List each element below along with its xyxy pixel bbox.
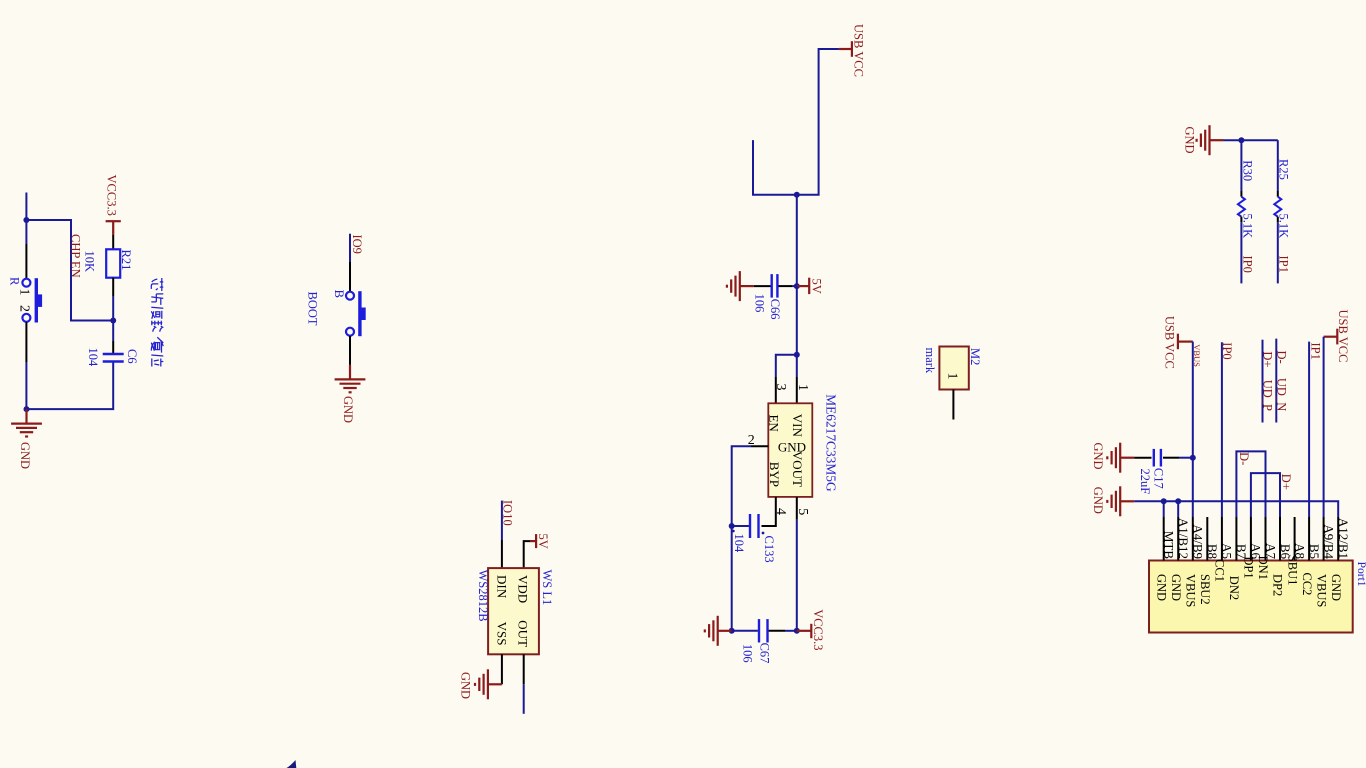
pin 3 lead [775, 377, 777, 403]
pin R30-bot lead [1240, 217, 1242, 223]
svg-text:CHP EN: CHP EN [69, 234, 83, 278]
wire gnd bus row [1134, 501, 1338, 517]
ground symbol boot [349, 365, 351, 380]
svg-text:VOUT: VOUT [790, 451, 805, 487]
mouse cursor [287, 760, 297, 768]
wire pin1 route [796, 355, 798, 377]
wire c17 to vbus [1179, 457, 1193, 459]
svg-text:GND: GND [18, 442, 32, 469]
wire gndrow to c67 [732, 630, 758, 632]
svg-text:22uF: 22uF [1138, 469, 1152, 495]
node junction c17-vbus [1190, 455, 1196, 461]
svg-text:GND: GND [1091, 443, 1105, 470]
wire EN net [732, 446, 751, 526]
svg-text:VBUS: VBUS [1314, 574, 1328, 607]
pin M2-1 lead [952, 390, 954, 420]
wire C133 to en [732, 525, 749, 527]
svg-text:10K: 10K [83, 251, 97, 273]
wire button lower [25, 362, 27, 409]
svg-text:USB VCC: USB VCC [852, 24, 866, 77]
svg-text:DP2: DP2 [1271, 574, 1285, 596]
wire IP0 [1221, 342, 1223, 517]
svg-text:IP0: IP0 [1220, 342, 1234, 359]
capacitor C133 [757, 514, 759, 538]
svg-text:C17: C17 [1151, 468, 1165, 489]
svg-text:D+: D+ [1279, 474, 1293, 490]
svg-text:WS2812B: WS2812B [476, 570, 490, 622]
resistor R21 [106, 249, 120, 277]
svg-text:B8: B8 [1205, 544, 1220, 559]
pushbutton R [22, 279, 30, 287]
pin B5 lead [1308, 517, 1310, 561]
wire gnd row [27, 362, 114, 410]
capacitor C6 [103, 353, 124, 355]
svg-text:VIN: VIN [790, 414, 805, 438]
svg-text:104: 104 [732, 534, 746, 554]
ground symbol c67 [718, 630, 732, 632]
ground symbol reset [25, 409, 27, 424]
wire r25 top [1277, 140, 1279, 191]
wire D+ crossover [1251, 473, 1280, 517]
wire C66 to trunk [792, 285, 797, 287]
pin R21-top lead [112, 235, 114, 249]
svg-text:SBU1: SBU1 [1285, 555, 1299, 586]
pin R-2 lead [25, 322, 27, 362]
svg-text:IP0: IP0 [1240, 256, 1254, 273]
wire VBUS [1192, 342, 1194, 517]
regulator U ME6217C33M5G body [768, 403, 812, 497]
ground symbol pullups [1210, 139, 1224, 141]
svg-text:GND: GND [1183, 127, 1197, 154]
pin 1 lead [796, 377, 798, 403]
wire node to C6 [112, 321, 114, 342]
pin B-2 lead [349, 336, 351, 365]
wire r25 bottom [1277, 222, 1279, 283]
wire gnd to r25 [1224, 139, 1278, 141]
svg-text:A4/B9: A4/B9 [1191, 524, 1206, 559]
node junction gnd-row [24, 406, 30, 412]
svg-text:GND: GND [341, 396, 355, 423]
wire mtb stub [1163, 501, 1165, 517]
svg-text:D+: D+ [1261, 351, 1275, 367]
wire D- crossover [1236, 451, 1265, 517]
svg-text:IP1: IP1 [1309, 343, 1323, 360]
svg-text:C133: C133 [762, 536, 776, 563]
svg-text:OUT: OUT [516, 620, 531, 647]
power flag 5V ws [535, 534, 537, 548]
pin R-1 lead [25, 244, 27, 278]
svg-text:GND: GND [1091, 487, 1105, 514]
ground symbol c66 [740, 285, 754, 287]
pin R21-bottom lead [112, 278, 114, 296]
svg-text:DIN: DIN [495, 575, 510, 599]
pin A8 lead [1294, 517, 1296, 561]
pin C17-left lead [1134, 457, 1151, 459]
svg-text:C6: C6 [125, 349, 139, 364]
power flag VCC3.3 [106, 220, 121, 222]
pin B6 lead [1279, 517, 1281, 561]
wire stub D+ [1262, 340, 1264, 423]
svg-text:1: 1 [17, 289, 32, 296]
svg-text:D-: D- [1237, 452, 1251, 465]
wire trunk vertical [796, 195, 798, 286]
pin DIN lead [501, 540, 503, 568]
pin R30-top lead [1240, 191, 1242, 197]
pin VSS lead [501, 654, 503, 684]
node junction 5V row [794, 283, 800, 289]
svg-text:R: R [8, 277, 22, 286]
svg-text:IO9: IO9 [350, 235, 364, 254]
svg-text:2: 2 [17, 305, 32, 312]
svg-text:DN1: DN1 [1256, 556, 1270, 580]
pin 2 lead [751, 445, 768, 447]
pin C66-right lead [779, 285, 793, 287]
svg-text:GND: GND [1169, 574, 1183, 601]
ground symbol port [1120, 500, 1134, 502]
svg-text:M2: M2 [968, 348, 982, 365]
power flag 5V [797, 285, 809, 287]
pin A12/B1 lead [1337, 517, 1339, 561]
svg-text:CC1: CC1 [1213, 559, 1227, 582]
capacitor C17 [1153, 449, 1155, 467]
svg-text:DP1: DP1 [1242, 556, 1256, 578]
svg-text:106: 106 [740, 644, 754, 663]
pin C66-left lead [754, 285, 771, 287]
svg-text:R21: R21 [119, 250, 133, 271]
svg-text:VBUS: VBUS [1192, 344, 1202, 367]
wire vout [796, 520, 798, 631]
capacitor C66 [771, 274, 773, 298]
dot 104 [732, 530, 735, 533]
wire c67 to vout [785, 630, 797, 632]
svg-text:VSS: VSS [495, 622, 510, 646]
svg-text:A9/B4: A9/B4 [1321, 524, 1336, 559]
svg-text:5V: 5V [810, 279, 824, 294]
svg-text:5.1K: 5.1K [1276, 214, 1290, 239]
svg-text:R25: R25 [1276, 159, 1290, 180]
pin B8 lead [1206, 517, 1208, 561]
mark M2 body [939, 347, 968, 390]
svg-text:A5: A5 [1220, 543, 1235, 559]
node junction a1b12 [1175, 498, 1181, 504]
node junction en-c133 [729, 523, 735, 529]
svg-text:D-: D- [1275, 351, 1289, 364]
node junction trunk-top [794, 192, 800, 198]
svg-text:UD_P: UD_P [1261, 380, 1275, 411]
wire IO10 [501, 501, 503, 540]
svg-text:SBU2: SBU2 [1198, 574, 1212, 605]
ground symbol ws [488, 683, 502, 685]
resistor R30 [1238, 197, 1245, 217]
node junction EN [110, 318, 116, 324]
node junction r30 [1238, 137, 1244, 143]
pin OUT lead [523, 654, 525, 684]
svg-text:VCC3.3: VCC3.3 [811, 609, 825, 650]
wire usbvcc trunk [753, 49, 839, 195]
wire IP1 [1308, 342, 1310, 517]
power flag USB VCC right [1336, 329, 1338, 345]
node junction gnd row [729, 628, 735, 634]
pin B7 lead [1235, 517, 1237, 561]
pin C67-right lead [769, 630, 785, 632]
svg-text:5V: 5V [536, 534, 550, 549]
svg-text:1: 1 [945, 373, 960, 380]
pin B-1 lead [349, 262, 351, 292]
svg-text:C66: C66 [768, 299, 782, 320]
svg-text:106: 106 [753, 294, 767, 313]
power flag VCC3.3 out [797, 630, 812, 632]
wire pin3 route [776, 355, 797, 377]
wire trunk to vin [796, 286, 798, 355]
wire stub top-left [25, 193, 27, 221]
wire button upper [25, 220, 27, 244]
svg-text:DN2: DN2 [1227, 576, 1241, 600]
pin A5 lead [1221, 517, 1223, 561]
svg-text:VBUS: VBUS [1184, 574, 1198, 607]
wire stub D- [1275, 339, 1277, 423]
resistor R25 [1274, 197, 1281, 217]
svg-text:C67: C67 [757, 643, 771, 664]
svg-text:BYP: BYP [767, 462, 782, 487]
power flag USB VCC top [851, 41, 853, 57]
wire a1b12 stub [1177, 501, 1179, 517]
annotation chip-enable [151, 278, 163, 291]
svg-text:CC2: CC2 [1300, 573, 1314, 596]
capacitor C67 [758, 619, 760, 642]
svg-text:GND: GND [459, 672, 473, 699]
svg-text:MTB: MTB [1162, 531, 1177, 560]
wire A9B4 vbus [1323, 337, 1325, 517]
node junction mtb [1161, 498, 1167, 504]
pin A6 lead [1250, 517, 1252, 561]
node junction button-top [23, 217, 29, 223]
pin R25-top lead [1277, 191, 1279, 197]
svg-text:USB VCC: USB VCC [1163, 316, 1177, 369]
svg-text:BOOT: BOOT [306, 292, 320, 326]
svg-text:B5: B5 [1307, 544, 1322, 559]
pin 4 lead [762, 497, 776, 526]
svg-text:5.1K: 5.1K [1240, 214, 1254, 239]
usb connector Port1 body [1149, 561, 1353, 633]
svg-text:USB VCC: USB VCC [1336, 310, 1350, 363]
wire OUT [523, 684, 525, 714]
svg-text:IP1: IP1 [1276, 256, 1290, 273]
wire en to gnd row [731, 526, 733, 631]
svg-text:VCC3.3: VCC3.3 [105, 175, 119, 216]
wire CHP EN net [26, 220, 113, 321]
pin A7 lead [1265, 517, 1267, 561]
wire R21 to node [112, 296, 114, 321]
pin A1/B12 lead [1177, 517, 1179, 561]
wire IO9 [349, 234, 351, 262]
svg-text:UD_N: UD_N [1275, 378, 1289, 411]
pin C17-right lead [1163, 457, 1179, 459]
pin VDD lead [524, 541, 530, 568]
svg-text:GND: GND [1329, 574, 1343, 601]
svg-text:ME6217C33M5G: ME6217C33M5G [824, 394, 839, 492]
svg-text:R30: R30 [1240, 160, 1254, 181]
node junction vin [794, 352, 800, 358]
pin 5 lead [796, 497, 798, 520]
pin MTB lead [1163, 517, 1165, 561]
svg-text:WS L1: WS L1 [540, 570, 554, 606]
svg-text:B: B [332, 290, 346, 298]
svg-text:3: 3 [773, 384, 788, 391]
svg-text:1: 1 [795, 384, 810, 391]
svg-text:GND: GND [1154, 574, 1168, 601]
power flag USB VCC left [1177, 334, 1179, 350]
svg-text:A1/B12: A1/B12 [1176, 518, 1191, 559]
svg-text:VDD: VDD [516, 575, 531, 603]
dot C133 [762, 532, 765, 535]
led WS2812B body [488, 568, 539, 654]
wire r30 bottom [1240, 222, 1242, 283]
svg-text:mark: mark [923, 348, 937, 374]
svg-text:104: 104 [86, 348, 100, 368]
svg-text:Port1: Port1 [1355, 562, 1366, 587]
pin R25-bot lead [1277, 217, 1279, 223]
ground symbol c17 [1120, 457, 1134, 459]
pin A9/B4 lead [1323, 517, 1325, 561]
svg-text:A12/B1: A12/B1 [1336, 518, 1351, 559]
node junction vout row [794, 628, 800, 634]
wire r30 top [1240, 140, 1242, 191]
pin C6-top lead [112, 341, 114, 354]
svg-text:EN: EN [767, 415, 782, 433]
pushbutton BOOT [346, 292, 354, 300]
pin A4/B9 lead [1192, 517, 1194, 561]
